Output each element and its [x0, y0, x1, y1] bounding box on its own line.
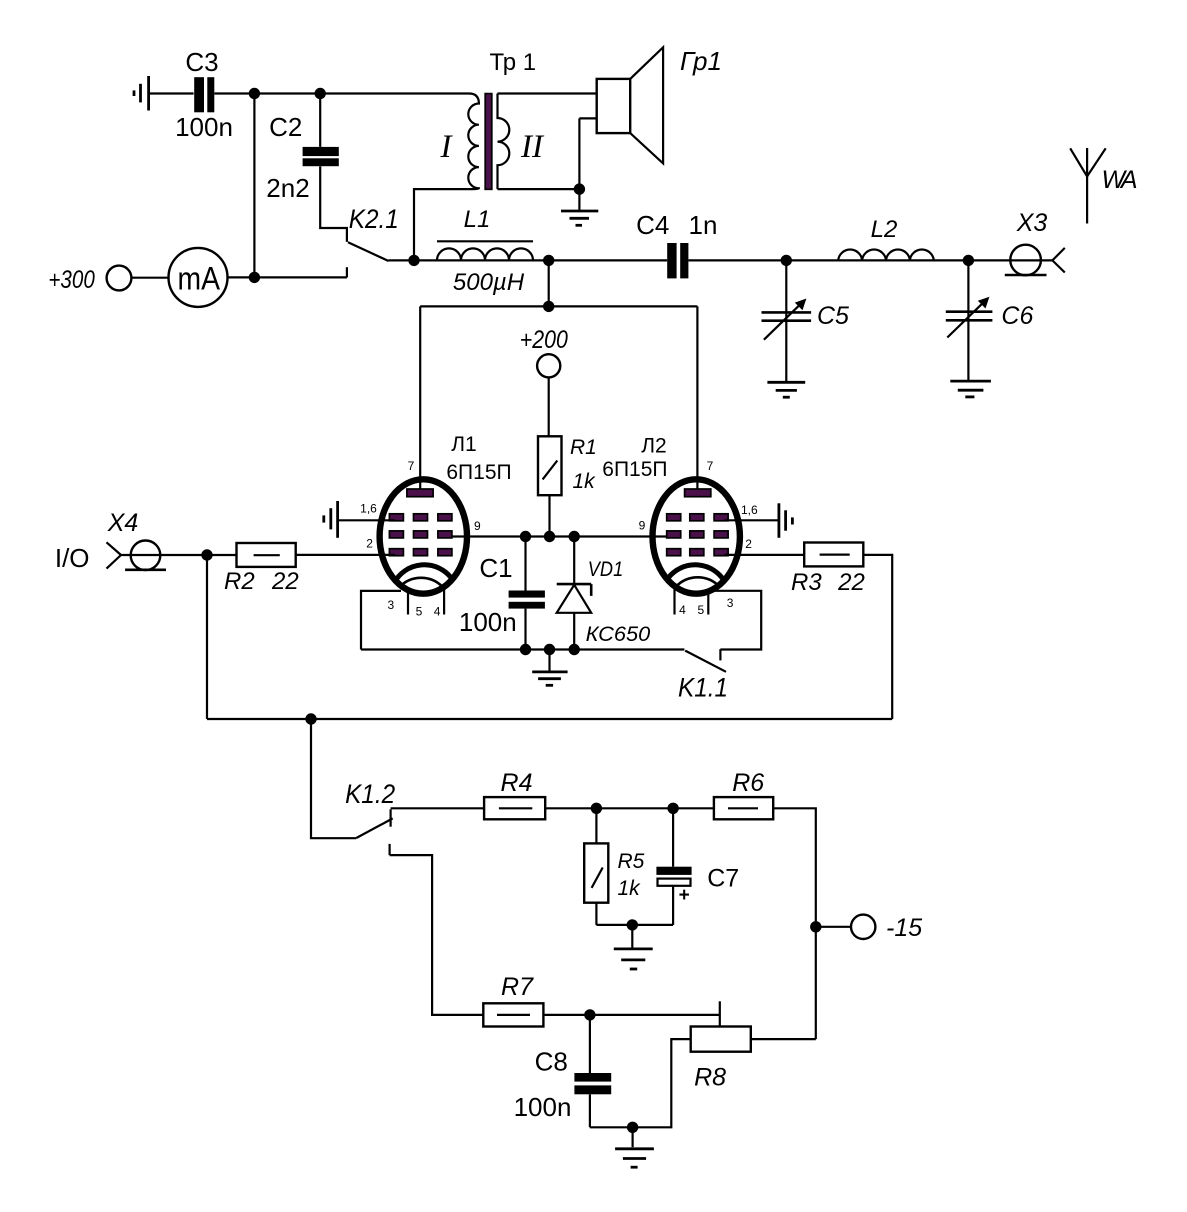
svg-text:L1: L1	[464, 206, 491, 233]
tube Л1 envelope	[380, 479, 467, 593]
svg-text:-15: -15	[886, 914, 922, 942]
wire Л1 grid 1,6 to ground	[339, 519, 395, 521]
wire R3 right	[863, 555, 892, 719]
resistor R5	[584, 808, 644, 925]
svg-text:C4: C4	[636, 210, 669, 240]
wire anode Л1	[419, 306, 421, 489]
svg-text:I: I	[440, 129, 454, 165]
inductor L2	[838, 216, 934, 260]
node cathode dot 1	[520, 644, 531, 655]
node speaker/secondary junction	[574, 183, 585, 194]
wire cathode bus	[361, 648, 684, 650]
svg-text:C1: C1	[479, 553, 512, 583]
node junction C7	[667, 803, 678, 814]
node bus dot 2	[544, 531, 555, 542]
node junction -15	[810, 921, 821, 932]
meter mA	[169, 248, 228, 307]
svg-text:Тр 1: Тр 1	[489, 49, 536, 76]
node junction L1/anode feed	[543, 255, 554, 266]
svg-text:+: +	[679, 885, 690, 906]
svg-text:22: 22	[837, 569, 865, 596]
tube Л2 pin 4 stub	[673, 589, 675, 615]
svg-text:I/O: I/O	[55, 543, 90, 573]
tube Л1 grid dashes row2	[389, 531, 452, 538]
tube Л2 labels	[602, 434, 758, 617]
node junction anode line	[543, 301, 554, 312]
node junction K1.2 feed	[305, 713, 316, 724]
switch K1.1	[678, 591, 761, 703]
wire mA to K2.1 lower contact	[228, 276, 347, 278]
tube Л2 grid dashes row1	[667, 514, 728, 521]
terminal -15	[851, 914, 922, 942]
svg-text:5: 5	[698, 603, 705, 617]
capacitor C4	[636, 210, 717, 278]
wire R4 to R6	[545, 807, 714, 809]
tube Л2 anode plate	[685, 489, 711, 497]
wire +300 to mA	[132, 277, 169, 279]
terminal +300	[48, 266, 131, 294]
ground (below C6)	[950, 381, 991, 397]
svg-text:9: 9	[474, 519, 481, 533]
svg-text:2: 2	[366, 537, 373, 551]
wire Л1 grid 2 (control)	[296, 554, 395, 556]
transformer TP1 secondary winding II	[498, 94, 510, 190]
wire secondary top to speaker	[498, 92, 597, 94]
svg-text:7: 7	[408, 459, 415, 473]
node junction K2.1/L1	[408, 255, 419, 266]
node junction R5	[591, 803, 602, 814]
connector X4	[107, 509, 237, 570]
capacitor C7 (polarized)	[656, 808, 739, 925]
wire X4 junction down	[206, 555, 208, 719]
resistor R7	[483, 973, 543, 1027]
tube Л1 pin 4 stub	[443, 589, 445, 615]
tube Л1 cathode box	[361, 591, 401, 650]
tube Л2 envelope	[653, 479, 740, 593]
svg-text:КС650: КС650	[586, 623, 651, 646]
node junction C5	[781, 255, 792, 266]
antenna WA	[1070, 148, 1137, 224]
resistor R6	[714, 769, 773, 819]
resistor R4	[484, 769, 545, 819]
wire R8 right	[751, 1038, 816, 1040]
resistor R2	[224, 543, 299, 595]
svg-text:100n: 100n	[459, 607, 517, 637]
ground (below R5/C7)	[614, 925, 653, 969]
svg-text:R8: R8	[694, 1064, 726, 1092]
svg-text:+300: +300	[48, 266, 94, 294]
svg-text:Гр1: Гр1	[680, 46, 722, 76]
wire to -15 terminal	[816, 926, 851, 928]
switch K2.1	[347, 204, 409, 277]
wire +200 to R1	[548, 377, 550, 436]
switch K1.2	[311, 719, 483, 1015]
tube Л2 grid dashes row2	[667, 531, 728, 538]
svg-text:K2.1: K2.1	[349, 204, 399, 234]
svg-text:C3: C3	[185, 47, 218, 77]
svg-text:mA: mA	[178, 261, 221, 297]
wire R5/C7 bottom	[596, 924, 673, 926]
tube Л1 pin 5 stub	[407, 591, 409, 615]
svg-text:6П15П: 6П15П	[602, 458, 667, 481]
svg-text:Л2: Л2	[641, 434, 666, 457]
resistor R3	[791, 543, 865, 597]
wire K1.2 to R4	[391, 807, 485, 809]
svg-text:1,6: 1,6	[360, 502, 377, 516]
tube Л1 cathode arc	[394, 565, 451, 583]
wire Л2 grid 2 to R3	[725, 554, 805, 556]
svg-text:4: 4	[679, 603, 686, 617]
node junction C8	[584, 1009, 595, 1020]
wire C4 to X3	[688, 259, 1052, 261]
transformer TP1 primary winding I	[414, 94, 479, 256]
wire R6 right and down	[773, 808, 816, 1039]
node bus dot 1	[520, 531, 531, 542]
zener diode VD1	[557, 537, 651, 650]
wire Л2 grid 1,6 to ground	[725, 519, 779, 521]
svg-text:R3: R3	[791, 569, 822, 596]
svg-text:C8: C8	[535, 1047, 568, 1077]
node cathode dot 3	[569, 644, 580, 655]
svg-text:C6: C6	[1001, 302, 1033, 330]
svg-text:1k: 1k	[573, 470, 597, 493]
terminal +200	[520, 326, 568, 378]
tube Л1 anode plate	[407, 489, 433, 497]
svg-text:100n: 100n	[175, 112, 233, 142]
svg-text:C5: C5	[817, 302, 849, 330]
wire down to mA line	[253, 94, 255, 278]
svg-text:R7: R7	[501, 973, 534, 1001]
connector X3	[1005, 209, 1065, 275]
svg-text:9: 9	[639, 519, 646, 533]
svg-text:2: 2	[745, 537, 752, 551]
node junction ground R5/C7	[627, 919, 638, 930]
wire C2 to K2.1 upper contact	[320, 166, 347, 242]
ground (below C5)	[767, 382, 805, 397]
svg-text:R6: R6	[732, 769, 764, 797]
tube Л2 grid dashes row3	[667, 549, 728, 556]
ground (below speaker)	[561, 189, 598, 225]
svg-text:Л1: Л1	[451, 433, 476, 456]
node junction ground C8/R8	[627, 1122, 638, 1133]
capacitor C3	[175, 47, 233, 142]
svg-text:R4: R4	[501, 769, 533, 797]
svg-text:C7: C7	[707, 865, 739, 893]
wire ground to C3	[149, 92, 194, 94]
svg-text:WA: WA	[1102, 166, 1138, 194]
node junction on mA wire	[249, 272, 260, 283]
wire anode Л2	[696, 306, 698, 489]
wire R1 to bus	[548, 495, 550, 536]
capacitor C1	[459, 537, 545, 650]
svg-text:4: 4	[434, 605, 441, 619]
wire RF line L1 segment	[409, 259, 667, 261]
node junction C2	[315, 88, 326, 99]
variable capacitor C5	[762, 260, 850, 381]
tube Л2 heater arc	[676, 577, 719, 586]
resistor R1	[538, 436, 597, 495]
svg-text:1n: 1n	[689, 210, 718, 240]
node bus dot 3	[569, 531, 580, 542]
tube Л2 cathode arc	[668, 565, 725, 583]
ground (Л2 grid, sideways)	[779, 503, 793, 538]
svg-text:K1.1: K1.1	[678, 673, 728, 703]
svg-text:1k: 1k	[618, 877, 642, 900]
svg-text:3: 3	[727, 596, 734, 610]
capacitor C8	[514, 1015, 612, 1127]
svg-text:X4: X4	[107, 509, 139, 537]
svg-text:7: 7	[707, 459, 714, 473]
capacitor C2	[266, 94, 338, 204]
node junction X4/R2	[201, 549, 212, 560]
wire long bottom bus	[207, 718, 892, 720]
svg-text:L2: L2	[871, 216, 898, 243]
wire down to anode line	[548, 260, 550, 306]
ground (cathode bus)	[532, 650, 567, 686]
ground (left of C3)	[134, 76, 149, 111]
svg-text:5: 5	[416, 605, 423, 619]
svg-text:R2: R2	[224, 568, 255, 595]
transformer TP1 core	[485, 94, 492, 190]
svg-text:1,6: 1,6	[741, 503, 758, 517]
svg-text:K1.2: K1.2	[345, 779, 395, 809]
node cathode dot 2	[544, 644, 555, 655]
wire anode line	[420, 305, 697, 307]
svg-text:2n2: 2n2	[266, 173, 309, 203]
svg-text:C2: C2	[269, 112, 302, 142]
wire secondary bottom	[498, 188, 580, 190]
svg-text:+200: +200	[520, 326, 568, 354]
tube Л2 pin 5 stub	[707, 591, 709, 615]
svg-text:3: 3	[387, 598, 394, 612]
svg-text:22: 22	[271, 568, 299, 595]
node junction C3/mA	[249, 88, 260, 99]
wire C3 to transformer primary	[214, 92, 469, 94]
speaker Gr1	[579, 46, 722, 189]
tube Л1 heater arc	[399, 578, 442, 587]
tube Л1 labels	[360, 433, 511, 619]
svg-text:R1: R1	[570, 436, 597, 459]
potentiometer R8	[691, 1001, 751, 1091]
svg-text:VD1: VD1	[588, 558, 623, 581]
svg-text:R5: R5	[618, 850, 645, 873]
inductor L1	[437, 206, 533, 296]
tube Л1 grid dashes row3	[389, 549, 452, 556]
svg-text:X3: X3	[1016, 209, 1048, 237]
wire screen bus (pin 9)	[452, 535, 667, 537]
wire R7 to R8 wiper	[543, 1014, 719, 1016]
ground (Л1 grid, sideways)	[324, 501, 338, 538]
tube Л1 grid dashes row1	[389, 514, 452, 521]
svg-text:500µH: 500µH	[453, 269, 525, 296]
node junction C6	[963, 255, 974, 266]
variable capacitor C6	[946, 260, 1034, 380]
svg-text:100n: 100n	[514, 1092, 572, 1122]
ground (below C8)	[615, 1127, 654, 1167]
svg-text:II: II	[520, 129, 545, 165]
wire R8 left down	[590, 1039, 691, 1127]
svg-text:6П15П: 6П15П	[446, 461, 511, 484]
